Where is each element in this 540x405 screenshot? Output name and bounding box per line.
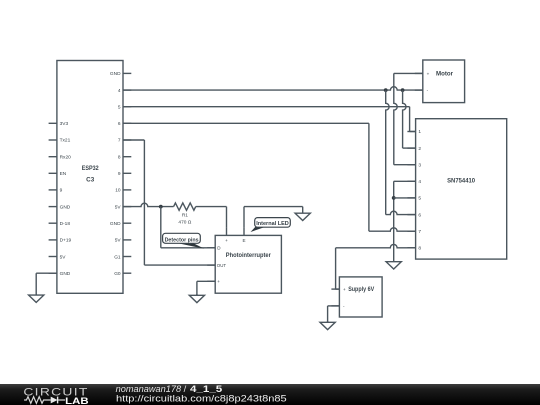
junction node pin5/ground net (392, 196, 396, 200)
wire SN754410 pin5 leftward (394, 197, 416, 199)
U1 right pin G0 (row 13) (114, 271, 131, 277)
resistor R1 zigzag (174, 203, 196, 210)
CircuitLab logo diode (51, 397, 65, 404)
svg-text:LAB: LAB (65, 396, 88, 405)
svg-text:6: 6 (418, 212, 421, 218)
IC U1 ESP32 C3 body (57, 61, 123, 294)
svg-text:+: + (217, 279, 220, 284)
svg-text:5: 5 (418, 196, 421, 202)
opto U3 Photointerrupter body (215, 235, 281, 293)
wire drop into U3 + top pin (226, 207, 228, 228)
wire R1 to U3 + top pin (196, 206, 227, 208)
wire ESP32 5V to R1 (hop over pin7 drop) (123, 203, 174, 206)
svg-text:7: 7 (118, 138, 121, 144)
wire branch down to U3 D pin (160, 207, 162, 248)
U3 left pin D (207, 246, 221, 251)
U1 right pin 5V (row 9) (115, 204, 132, 210)
motor + pin (415, 71, 430, 76)
svg-text:OUT: OUT (217, 263, 227, 268)
wire SN754410 pin4 leftward (394, 180, 416, 182)
wire Motor+ drop to SN754410 pin3 (394, 73, 397, 164)
svg-text:5: 5 (118, 104, 121, 110)
U1 right pin GND (row 10) (110, 221, 131, 227)
U1 left pin 3V3 (49, 121, 69, 127)
U1 right pin 4 (row 2) (118, 88, 131, 94)
wire E row to ground (244, 206, 303, 208)
annotation callout "Detector pins" (163, 233, 205, 249)
svg-text:5V: 5V (60, 254, 67, 260)
wire ESP32 pin7 rightward (123, 139, 144, 141)
CircuitLab logo resistor zigzag (24, 397, 51, 404)
U1 right pin 7 (row 5) (118, 138, 131, 144)
svg-text:G1: G1 (114, 254, 121, 260)
U2 pin 6 (407, 212, 421, 218)
V1 - pin (331, 304, 345, 309)
wire ESP32 pin6 rightward (123, 122, 369, 124)
svg-text:GND: GND (110, 221, 121, 227)
svg-text:9: 9 (118, 171, 121, 177)
U2 pin 5 (407, 196, 421, 202)
voltage source V1 Supply 6V body (339, 277, 382, 317)
U1 right pin 5 (row 3) (118, 104, 131, 110)
svg-text:+: + (343, 287, 346, 292)
U3 top pin E (242, 227, 245, 243)
ground (SN754410 pin4/5) (386, 261, 401, 269)
svg-text:Rx20: Rx20 (60, 154, 72, 160)
ground (Supply -) (320, 321, 335, 330)
svg-text:ESP32: ESP32 (82, 165, 99, 172)
svg-text:Detector pins: Detector pins (165, 237, 199, 243)
svg-text:7: 7 (418, 229, 421, 235)
wire down to ground (196, 281, 198, 295)
svg-text:5V: 5V (115, 238, 122, 244)
svg-text:2: 2 (418, 146, 421, 152)
ground (photointerrupter +) (189, 294, 204, 303)
U1 left pin D-18 (49, 221, 71, 227)
U2 pin 4 (407, 179, 421, 185)
wire drop to OUT row (143, 140, 145, 265)
ground (ESP32 GND) (29, 294, 44, 302)
wire Supply 6V - lead (328, 305, 340, 307)
svg-text:GND: GND (60, 204, 71, 210)
svg-text:GND: GND (110, 71, 121, 77)
U3 left pin + (bottom) (207, 279, 220, 284)
IC U2 SN754410 body (416, 119, 507, 259)
svg-text:E: E (242, 238, 245, 243)
wire branch down to SN754410 pin2 (403, 90, 406, 148)
U2 pin 8 (407, 245, 421, 251)
svg-text:EN: EN (60, 171, 67, 177)
ground (E net) (295, 207, 310, 221)
svg-text:10: 10 (115, 188, 121, 194)
wire down to ground (327, 306, 329, 322)
wire branch down to SN754410 pin6 (386, 90, 389, 215)
svg-text:+: + (427, 71, 430, 76)
U3 left pin OUT (207, 263, 226, 268)
wire drop to SN754410 pin7 row (368, 123, 370, 231)
wire into SN754410 pin2 (403, 147, 416, 149)
U1 right pin GND (row 1) (110, 71, 131, 77)
wire Motor + lead (394, 72, 423, 74)
svg-text:Photointerrupter: Photointerrupter (226, 252, 272, 259)
svg-text:470 Ω: 470 Ω (178, 220, 191, 226)
svg-text:4: 4 (418, 179, 421, 185)
U2 pin 2 (407, 146, 421, 152)
U1 right pin 10 (row 8) (115, 188, 131, 194)
U1 right pin 9 (row 7) (118, 171, 131, 177)
junction node on pin4 net (branch to U2 pin6) (384, 88, 388, 92)
U2 pin 7 (407, 229, 421, 235)
wire pin4 down to ground (393, 181, 395, 261)
svg-text:8: 8 (118, 154, 121, 160)
U3 top pin + (225, 227, 228, 243)
wire into SN754410 pin1 (410, 131, 416, 133)
svg-text:Internal LED: Internal LED (256, 221, 289, 227)
svg-text:SN754410: SN754410 (447, 178, 475, 185)
svg-text:3: 3 (418, 162, 421, 168)
wire Supply 6V + lead (336, 288, 340, 290)
wire U3 + bottom pin leftward (197, 280, 215, 282)
junction node on pin4 net (branch to U2 pin2) (401, 88, 405, 92)
wire drop to SN754410 pin1 row (409, 107, 411, 132)
U2 pin 1 (407, 129, 421, 135)
annotation callout "Internal LED" (251, 218, 291, 232)
U1 left pin EN (49, 171, 67, 177)
svg-text:D-18: D-18 (60, 221, 71, 227)
svg-text:R1: R1 (182, 212, 188, 218)
U1 name label ESP32 C3 (82, 165, 99, 184)
wire into SN754410 pin8 (336, 244, 416, 247)
wire into SN754410 pin6 (386, 211, 416, 214)
U1 left pin 5V (49, 254, 67, 260)
wire into U3 D pin (161, 247, 215, 249)
wire down to ground (35, 273, 37, 295)
U1 left pin Tx21 (49, 138, 71, 144)
wire ESP32 pin4 to Motor - (hop over Motor+ drop) (123, 87, 423, 90)
junction node 5V/R1/D branch (159, 205, 163, 209)
svg-text:4: 4 (118, 88, 121, 94)
wire into SN754410 pin3 (394, 164, 416, 166)
svg-text:9: 9 (60, 188, 63, 194)
wire U3 E pin up (243, 207, 245, 228)
wire ESP32 pin5 toward SN754410 pin1 (123, 106, 410, 108)
U1 left pin GND (49, 204, 71, 210)
U1 left pin GND (49, 271, 71, 277)
wire into SN754410 pin7 (369, 228, 416, 231)
U1 left pin Rx20 (49, 154, 72, 160)
motor M1 body (423, 60, 465, 103)
wire into U3 OUT pin (144, 264, 215, 266)
U1 right pin 6 (row 4) (118, 121, 131, 127)
U2 pin 3 (407, 162, 421, 168)
svg-text:Tx21: Tx21 (60, 138, 71, 144)
svg-text:8: 8 (418, 245, 421, 251)
svg-text:+: + (225, 238, 228, 243)
svg-text:1: 1 (418, 129, 421, 135)
U1 right pin 5V (row 11) (115, 238, 132, 244)
svg-text:G0: G0 (114, 271, 121, 277)
svg-text:GND: GND (60, 271, 71, 277)
U1 right pin 8 (row 6) (118, 154, 131, 160)
svg-text:6: 6 (118, 121, 121, 127)
motor - pin (415, 88, 429, 93)
svg-text:5V: 5V (115, 204, 122, 210)
U1 left pin D+19 (49, 238, 72, 244)
svg-text:D+19: D+19 (60, 238, 72, 244)
svg-text:Motor: Motor (436, 70, 454, 77)
U1 left pin 9 (49, 188, 63, 194)
svg-text:C3: C3 (86, 177, 95, 184)
svg-text:3V3: 3V3 (60, 121, 69, 127)
wire Supply+ up to pin8 row (335, 248, 337, 289)
wire ESP32 GND left pin (36, 272, 57, 274)
U1 right pin G1 (row 12) (114, 254, 131, 260)
svg-text:Supply 6V: Supply 6V (348, 286, 375, 293)
V1 + pin (331, 287, 346, 292)
svg-text:http://circuitlab.com/c8j8p243: http://circuitlab.com/c8j8p243t8n85 (116, 393, 287, 404)
